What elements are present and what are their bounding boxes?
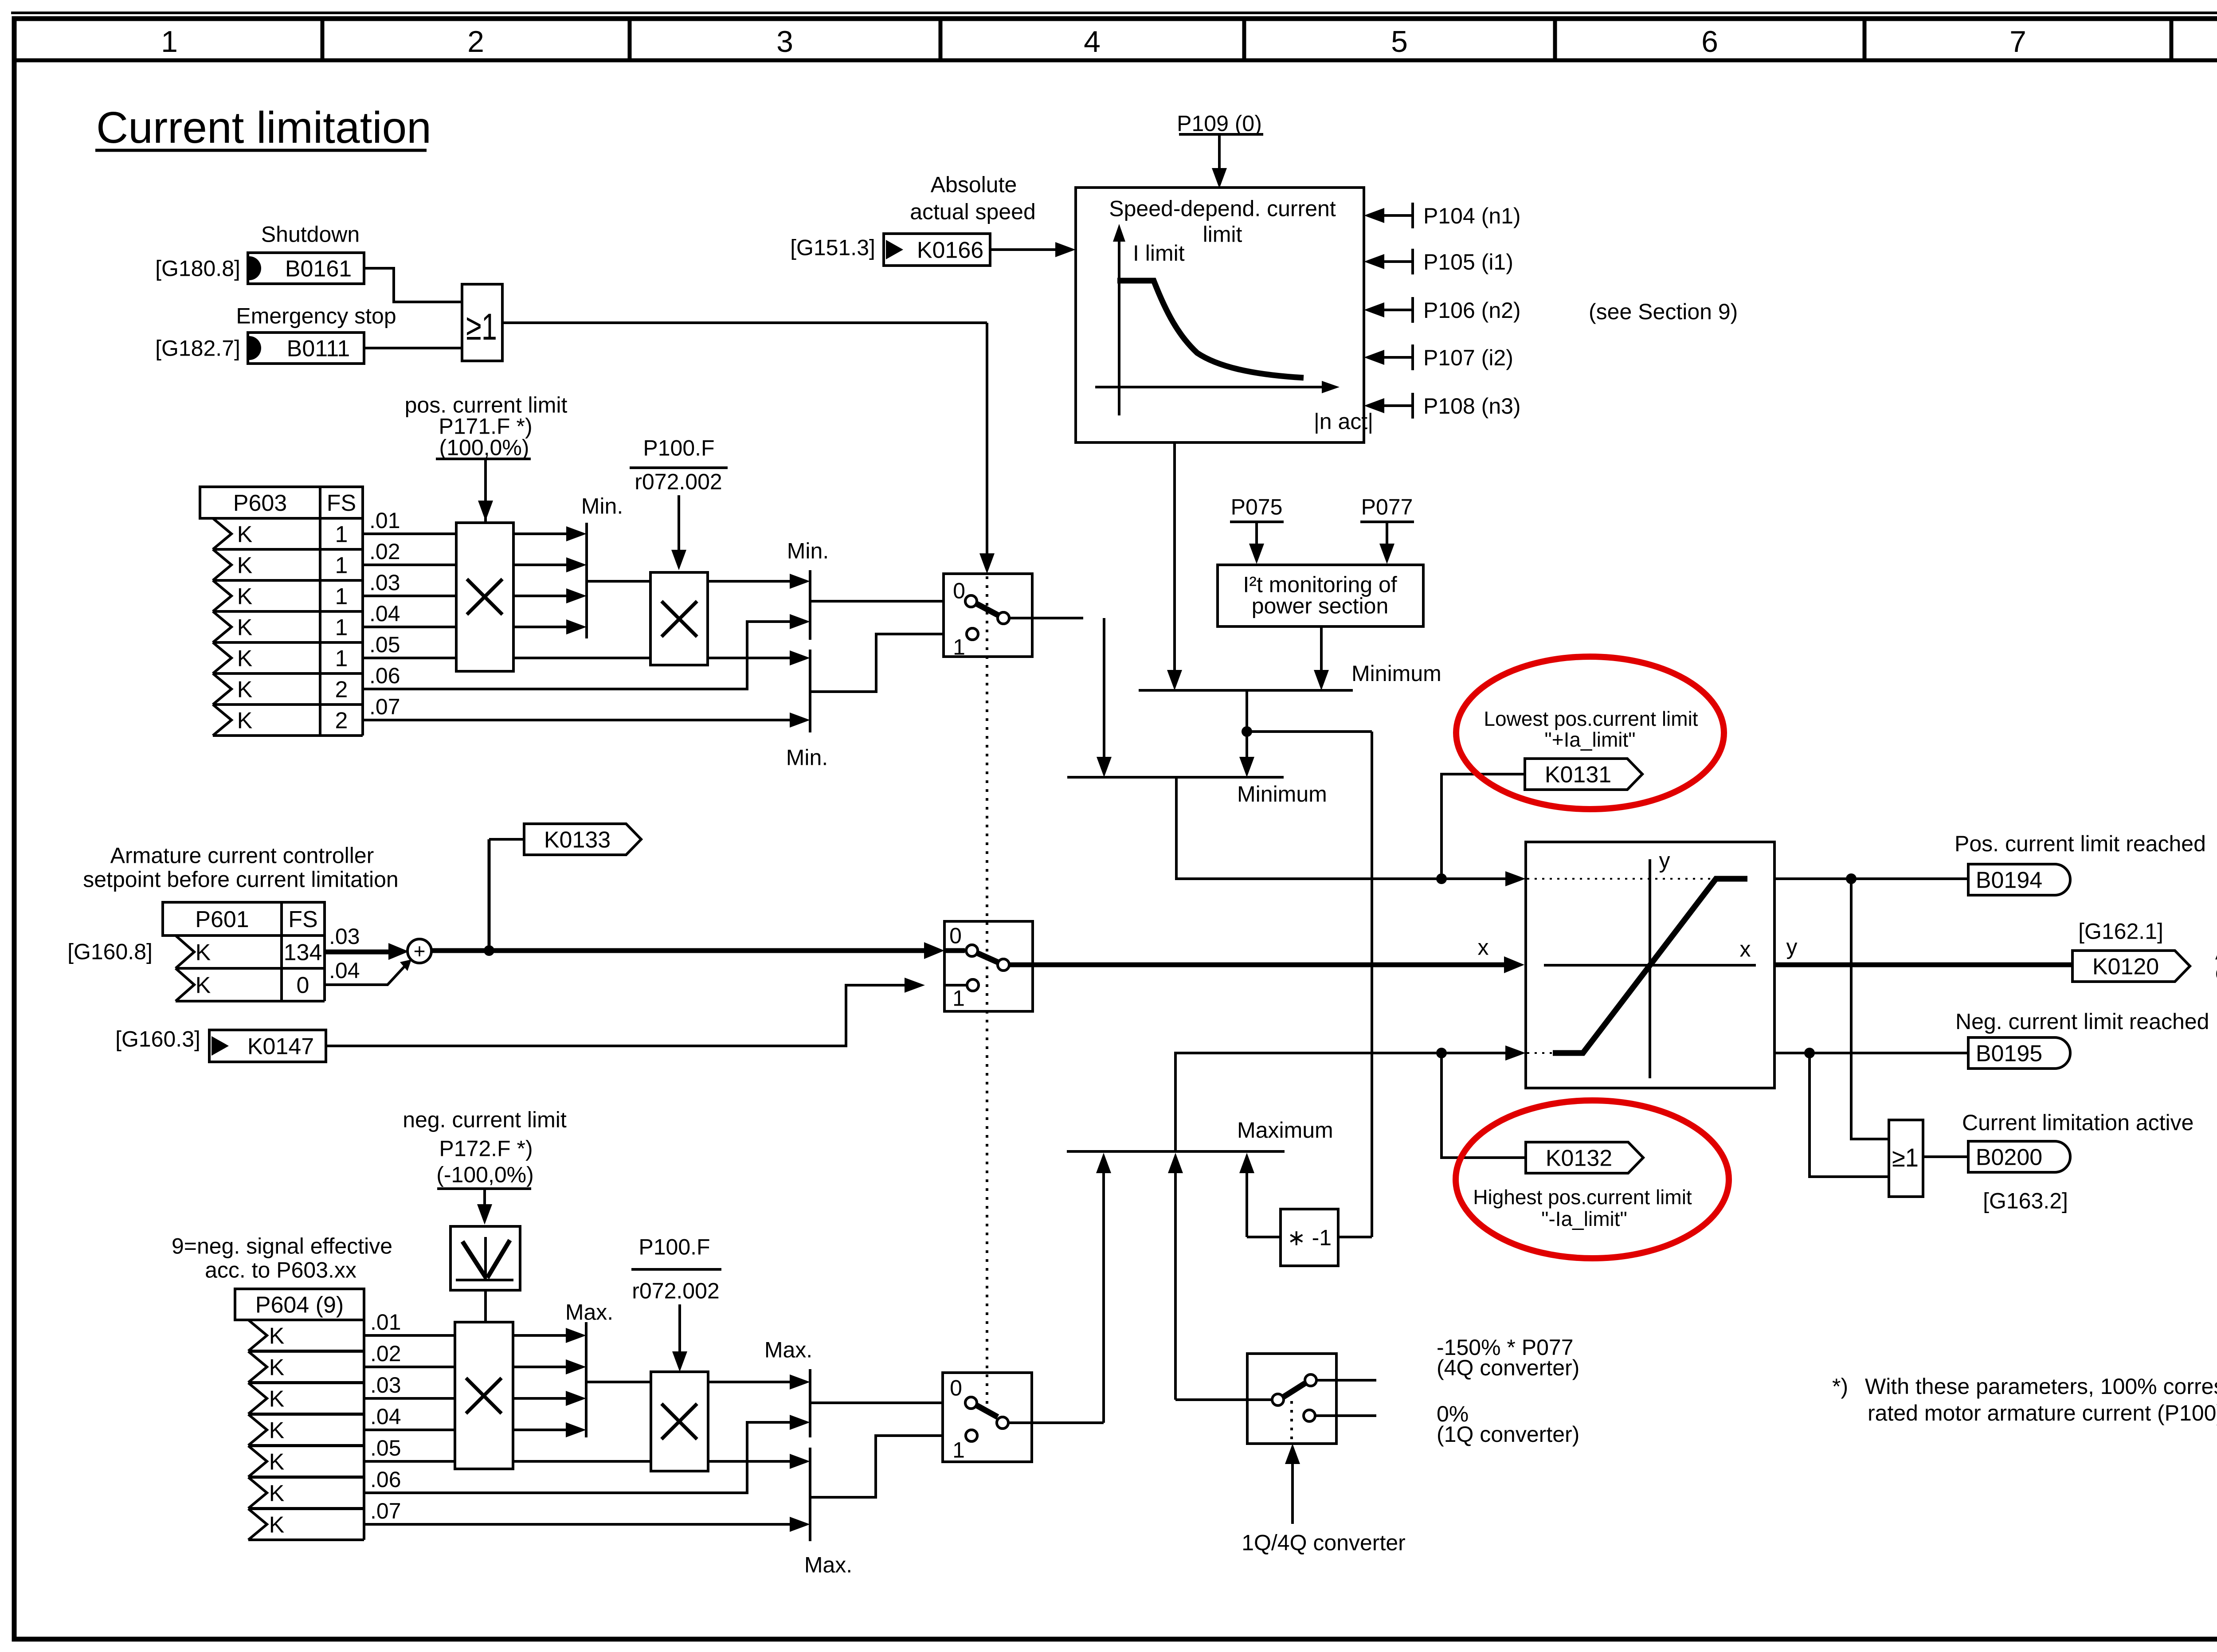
svg-text:P107 (i2): P107 (i2) [1423,345,1513,370]
svg-text:Minimum: Minimum [1351,661,1441,686]
svg-text:(4Q converter): (4Q converter) [1437,1355,1579,1380]
svg-text:Min.: Min. [787,539,829,564]
svg-text:Min.: Min. [581,494,623,519]
svg-text:≥1: ≥1 [1892,1143,1919,1172]
svg-text:5: 5 [1391,25,1408,59]
svg-text:current setpoint: current setpoint [2215,960,2217,985]
svg-text:0: 0 [953,579,965,603]
svg-text:1: 1 [952,1438,965,1463]
svg-text:P172.F *): P172.F *) [439,1136,533,1161]
svg-text:.04: .04 [329,958,360,983]
svg-text:K: K [269,1512,285,1538]
svg-text:.03: .03 [329,924,360,949]
svg-text:actual speed: actual speed [910,200,1036,224]
svg-text:Neg. current limit reached: Neg. current limit reached [1955,1009,2209,1034]
svg-text:Highest pos.current limit: Highest pos.current limit [1473,1186,1692,1209]
svg-text:.06: .06 [370,1467,401,1492]
svg-text:[G162.1]: [G162.1] [2078,919,2163,944]
svg-text:Emergency stop: Emergency stop [236,304,396,329]
svg-text:setpoint before current limita: setpoint before current limitation [83,867,398,892]
svg-text:B0194: B0194 [1976,867,2042,893]
svg-text:I limit: I limit [1133,241,1185,266]
svg-text:Shutdown: Shutdown [261,222,360,247]
svg-text:K0147: K0147 [247,1033,314,1059]
svg-text:(see Section 9): (see Section 9) [1589,299,1738,324]
svg-text:Max.: Max. [764,1338,812,1362]
svg-text:K: K [196,940,211,965]
svg-text:1: 1 [335,583,348,609]
svg-text:6: 6 [1701,25,1718,59]
svg-text:Speed-depend. current: Speed-depend. current [1109,196,1336,221]
svg-text:1: 1 [953,635,965,660]
svg-text:P075: P075 [1231,495,1283,520]
svg-text:.02: .02 [369,539,400,564]
svg-text:B0161: B0161 [285,256,352,282]
svg-text:(1Q converter): (1Q converter) [1437,1422,1579,1447]
svg-text:Absolute: Absolute [931,172,1017,197]
svg-text:.04: .04 [370,1404,401,1429]
svg-text:B0200: B0200 [1976,1144,2042,1170]
svg-text:x: x [1478,935,1489,960]
svg-text:B0195: B0195 [1976,1041,2042,1066]
svg-text:K0132: K0132 [1546,1145,1612,1171]
svg-text:.06: .06 [369,663,400,688]
svg-text:x: x [1740,937,1751,962]
svg-text:2: 2 [467,25,484,59]
svg-text:acc. to P603.xx: acc. to P603.xx [205,1258,356,1283]
svg-text:*): *) [1832,1374,1848,1399]
svg-text:9=neg. signal effective: 9=neg. signal effective [172,1234,392,1259]
svg-text:134: 134 [284,940,322,965]
svg-text:[G163.2]: [G163.2] [1983,1189,2068,1214]
svg-text:.01: .01 [370,1310,401,1335]
svg-text:.02: .02 [370,1341,401,1366]
svg-text:K0133: K0133 [544,827,611,853]
svg-text:K: K [269,1417,285,1443]
svg-text:1: 1 [335,646,348,671]
svg-text:K: K [237,615,253,640]
svg-text:≥1: ≥1 [466,306,497,348]
svg-text:0: 0 [950,1376,962,1401]
svg-text:[G182.7]: [G182.7] [155,336,240,361]
svg-text:3: 3 [776,25,793,59]
svg-text:P604 (9): P604 (9) [255,1292,344,1318]
svg-text:[G160.3]: [G160.3] [115,1027,200,1052]
svg-text:P100.F: P100.F [638,1235,710,1260]
svg-text:K: K [237,521,253,547]
svg-text:1: 1 [335,521,348,547]
svg-text:0: 0 [297,972,309,998]
svg-text:K: K [237,646,253,671]
svg-text:Current limitation active: Current limitation active [1962,1110,2193,1135]
svg-text:K: K [196,972,211,998]
svg-text:.05: .05 [369,632,400,657]
svg-text:4: 4 [1084,25,1101,59]
svg-text:K: K [237,583,253,609]
svg-text:.07: .07 [369,694,400,719]
svg-text:"+Ia_limit": "+Ia_limit" [1544,728,1635,751]
svg-text:.05: .05 [370,1436,401,1460]
svg-text:1: 1 [335,552,348,578]
svg-text:Min.: Min. [786,745,828,770]
svg-text:[G160.8]: [G160.8] [67,940,153,964]
svg-text:neg. current limit: neg. current limit [403,1108,567,1132]
svg-text:K0166: K0166 [917,237,983,263]
svg-text:FS: FS [327,490,356,516]
svg-text:2: 2 [335,677,348,702]
svg-text:.01: .01 [369,508,400,533]
svg-text:Minimum: Minimum [1237,782,1327,806]
svg-text:.03: .03 [370,1373,401,1398]
svg-text:K: K [269,1449,285,1475]
svg-text:y: y [1659,848,1670,873]
svg-text:Armature current controller: Armature current controller [110,843,374,868]
svg-text:.04: .04 [369,601,400,626]
svg-text:power section: power section [1252,594,1389,619]
svg-text:+: + [414,940,426,963]
svg-text:K: K [269,1323,285,1349]
svg-text:K: K [237,677,253,702]
svg-text:P100.F: P100.F [643,436,714,461]
svg-text:Current limitation: Current limitation [96,103,431,153]
svg-text:y: y [1786,935,1798,959]
svg-text:P603: P603 [233,490,287,516]
svg-text:0: 0 [949,924,962,948]
svg-text:K: K [269,1386,285,1412]
svg-text:P108 (n3): P108 (n3) [1423,394,1521,419]
svg-text:P106 (n2): P106 (n2) [1423,298,1521,323]
svg-text:K0120: K0120 [2092,954,2159,979]
svg-text:B0111: B0111 [287,336,350,361]
svg-text:1: 1 [161,25,178,59]
svg-text:1: 1 [335,615,348,640]
svg-text:|n act|: |n act| [1314,409,1373,434]
svg-text:K: K [237,708,253,733]
svg-text:P109 (0): P109 (0) [1177,111,1262,136]
svg-text:.03: .03 [369,570,400,595]
svg-text:∗ -1: ∗ -1 [1287,1225,1332,1250]
svg-text:FS: FS [288,907,317,932]
svg-text:With these parameters, 100% co: With these parameters, 100% corresponds … [1865,1374,2217,1399]
svg-text:1Q/4Q converter: 1Q/4Q converter [1242,1531,1406,1555]
svg-text:K0131: K0131 [1545,762,1611,787]
svg-text:(100,0%): (100,0%) [439,435,529,460]
svg-text:"-Ia_limit": "-Ia_limit" [1541,1207,1627,1230]
svg-text:1: 1 [952,986,965,1011]
svg-text:Pos. current limit reached: Pos. current limit reached [1955,831,2206,856]
svg-text:(-100,0%): (-100,0%) [436,1163,534,1187]
svg-text:2: 2 [335,708,348,733]
svg-text:P077: P077 [1361,495,1413,520]
svg-text:Maximum: Maximum [1237,1118,1333,1143]
svg-text:Max.: Max. [804,1553,852,1578]
svg-text:.07: .07 [370,1499,401,1523]
svg-text:K: K [269,1480,285,1506]
svg-text:P601: P601 [195,907,249,932]
svg-text:Max.: Max. [565,1300,613,1325]
svg-text:K: K [237,552,253,578]
svg-text:r072.002: r072.002 [635,470,722,494]
svg-text:P104 (n1): P104 (n1) [1423,204,1521,228]
svg-text:7: 7 [2009,25,2026,59]
svg-text:[G180.8]: [G180.8] [155,256,240,281]
svg-text:rated motor armature current (: rated motor armature current (P100) [1868,1401,2217,1425]
svg-text:K: K [269,1354,285,1380]
svg-text:P105 (i1): P105 (i1) [1423,250,1513,274]
svg-text:[G151.3]: [G151.3] [790,235,875,260]
svg-text:limit: limit [1203,222,1242,247]
svg-text:r072.002: r072.002 [632,1279,719,1304]
svg-text:Lowest pos.current limit: Lowest pos.current limit [1484,707,1698,730]
